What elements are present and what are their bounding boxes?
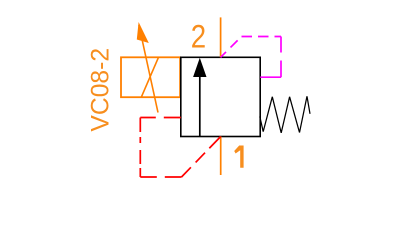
pilot line diagonal segment (dashed) <box>221 37 242 58</box>
spring <box>260 96 310 133</box>
solenoid X diagonal <box>141 57 158 97</box>
flow arrow shaft <box>199 75 201 137</box>
port 2 wire <box>220 17 222 57</box>
adjustment arrowhead <box>137 22 149 43</box>
port 1 wire <box>220 137 222 176</box>
drain line bottom segment (dashed) <box>140 176 181 178</box>
port 1 label <box>234 146 243 168</box>
solenoid coil box <box>121 57 180 97</box>
svg-text:2: 2 <box>191 19 206 55</box>
port 2 label <box>191 19 206 55</box>
drain line diagonal segment (dashed) <box>182 137 221 178</box>
drain line left segment (dashed) <box>139 118 141 178</box>
drain line top segment (dashed) <box>140 117 181 119</box>
svg-text:VC08-2: VC08-2 <box>88 48 115 132</box>
valve body <box>181 57 260 136</box>
pilot line entry segment <box>260 76 281 78</box>
label VC08-2 <box>88 48 115 132</box>
pilot line top segment (dashed) <box>242 36 282 38</box>
flow arrowhead <box>193 58 206 77</box>
adjustment arrow shaft <box>139 25 158 113</box>
pilot line right segment (dashed) <box>280 37 282 78</box>
